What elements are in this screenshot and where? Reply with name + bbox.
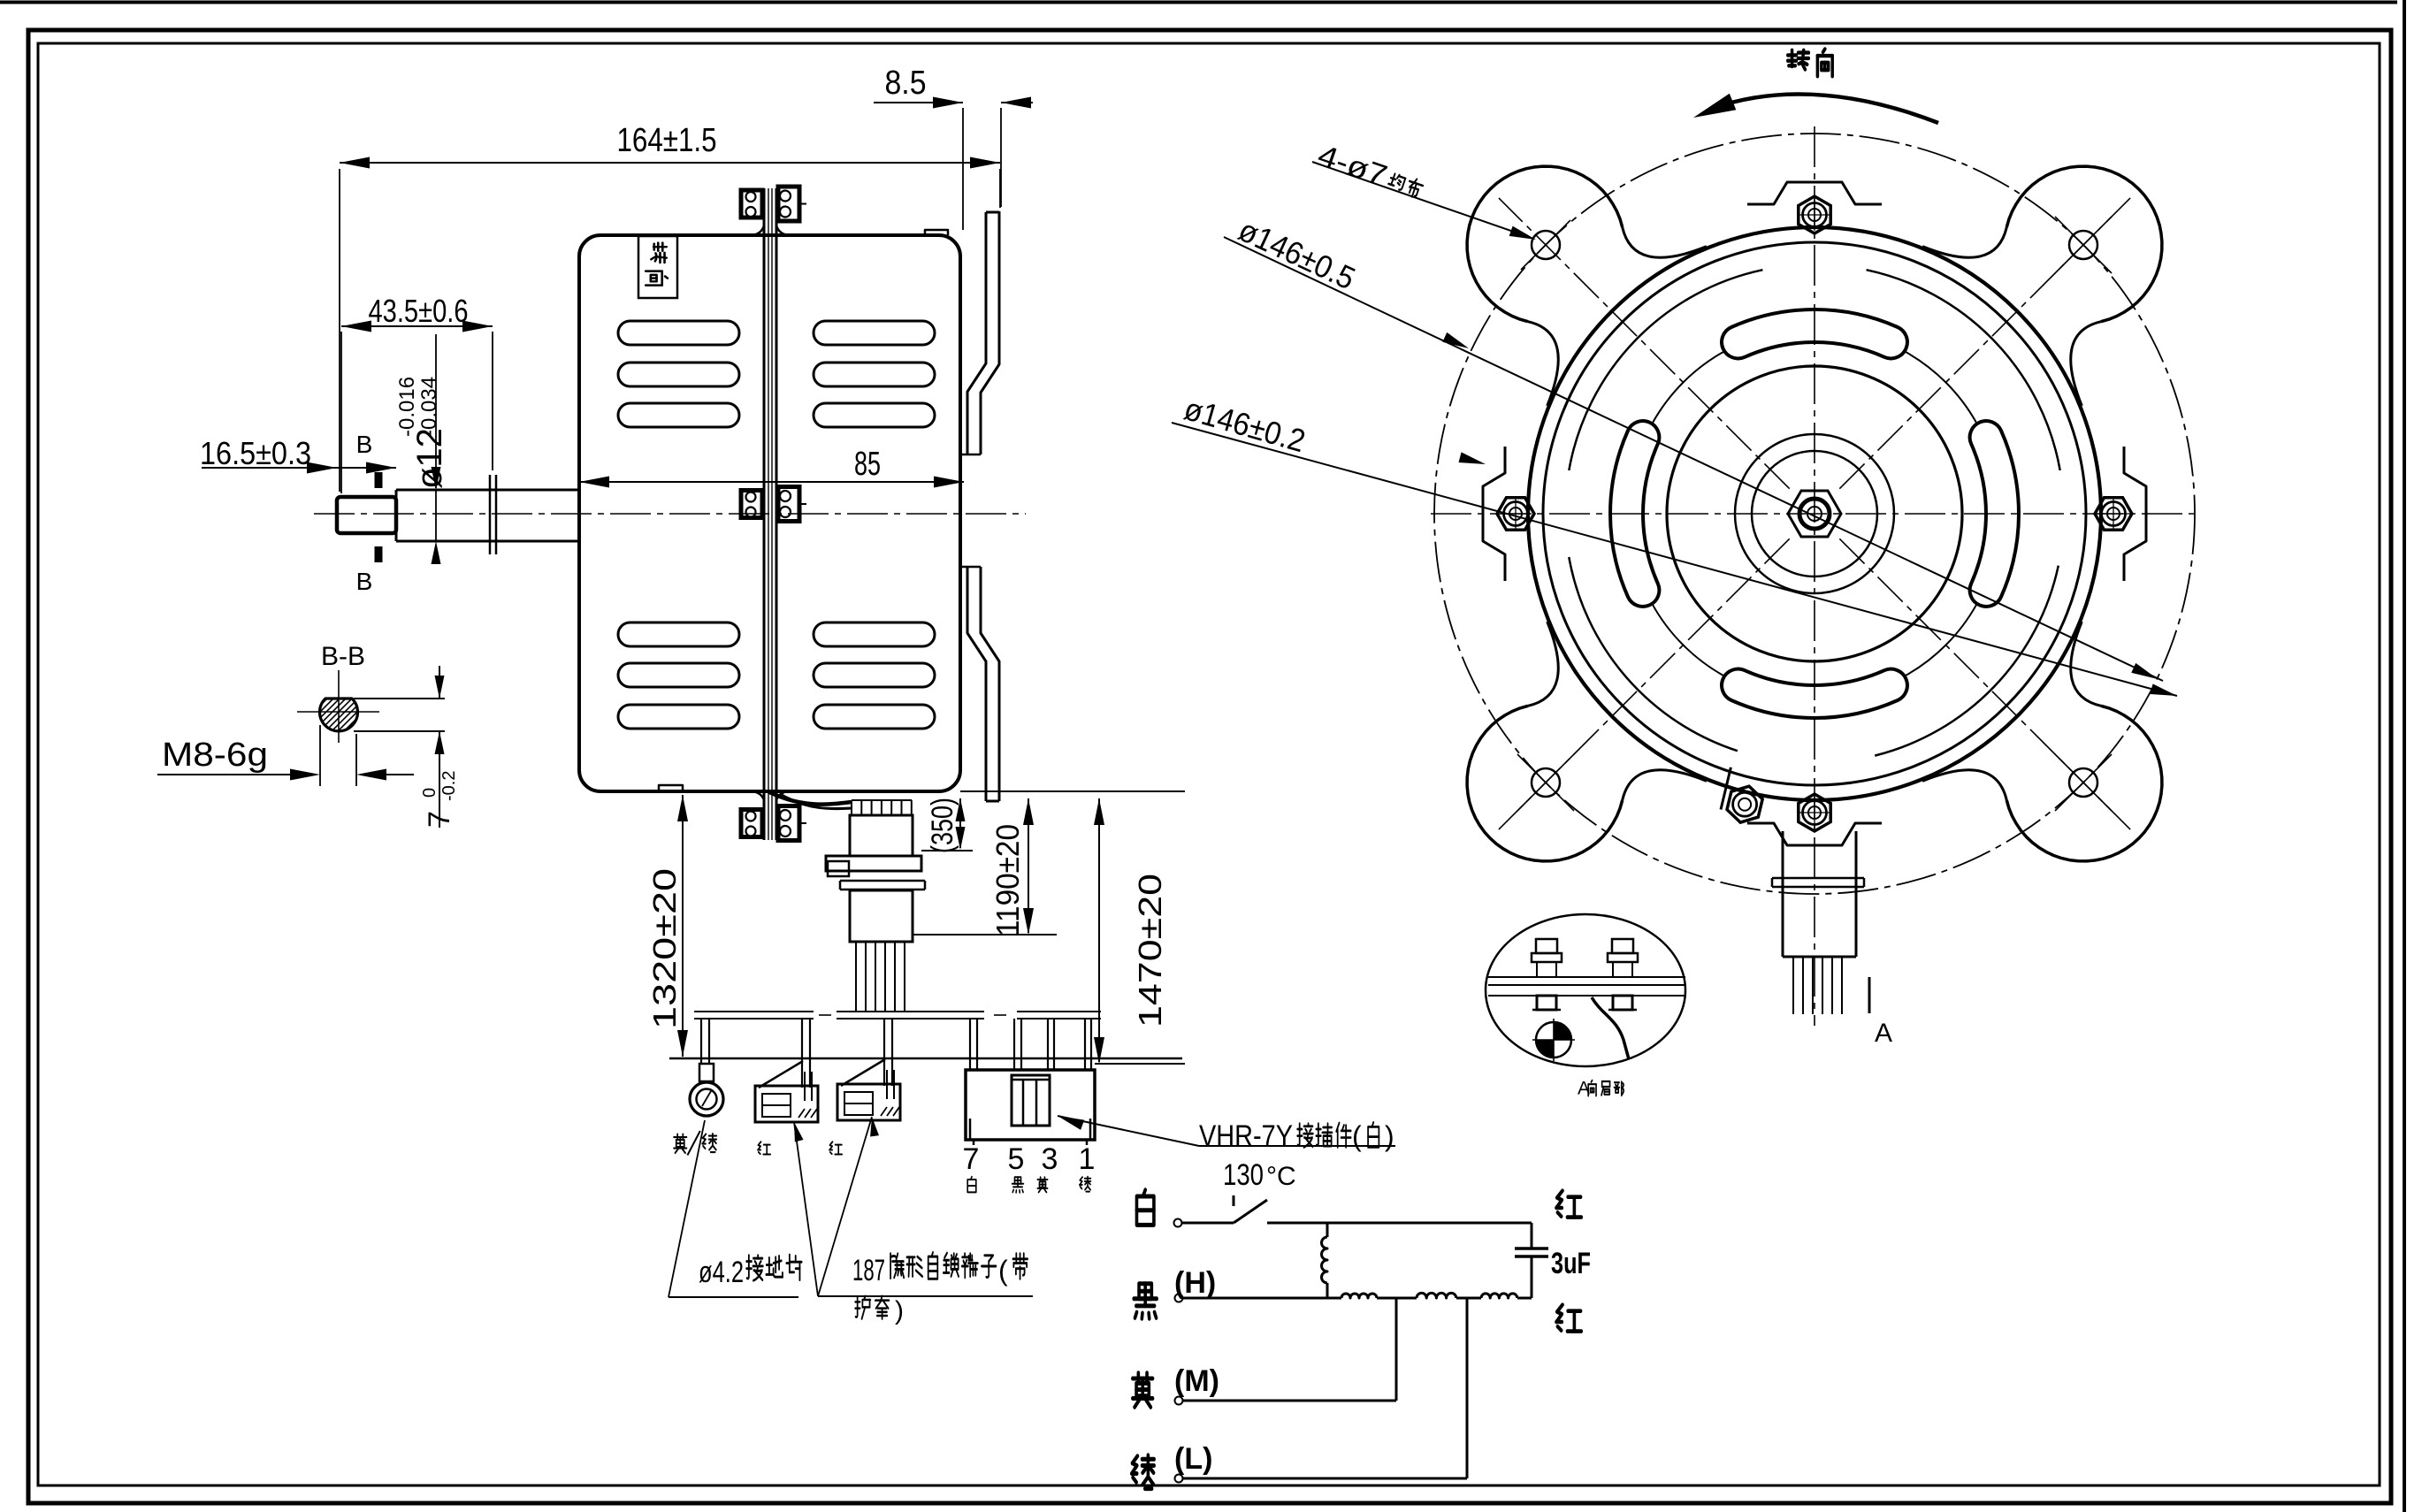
svg-text:-0.016: -0.016 (395, 377, 419, 437)
svg-text:): ) (895, 1296, 904, 1325)
svg-text:1470±20: 1470±20 (1132, 874, 1168, 1027)
svg-text:8.5: 8.5 (885, 65, 927, 102)
svg-text:130: 130 (1223, 1158, 1264, 1192)
svg-text:(M): (M) (1174, 1364, 1219, 1398)
svg-text:7: 7 (963, 1142, 980, 1176)
svg-text:°C: °C (1266, 1162, 1296, 1191)
svg-text:B: B (356, 431, 373, 458)
svg-text:(: ( (1352, 1120, 1362, 1152)
svg-text:16.5±0.3: 16.5±0.3 (200, 435, 311, 471)
svg-text:-0.034: -0.034 (417, 377, 441, 437)
svg-text:85: 85 (854, 446, 881, 483)
svg-text:(: ( (998, 1255, 1008, 1287)
svg-text:5: 5 (1008, 1142, 1025, 1176)
svg-text:ø4.2: ø4.2 (699, 1256, 744, 1289)
svg-text:0: 0 (420, 788, 439, 798)
svg-text:3uF: 3uF (1551, 1247, 1591, 1280)
svg-text:VHR-7Y: VHR-7Y (1199, 1119, 1293, 1153)
svg-text:3: 3 (1042, 1142, 1058, 1176)
svg-text:-0.2: -0.2 (439, 771, 459, 801)
svg-text:187: 187 (852, 1254, 885, 1287)
svg-text:(L): (L) (1174, 1442, 1212, 1476)
svg-text:1320±20: 1320±20 (646, 868, 683, 1029)
svg-text:(350): (350) (926, 798, 959, 853)
svg-text:B-B: B-B (321, 642, 365, 671)
svg-text:M8-6g: M8-6g (162, 737, 268, 774)
svg-text:7: 7 (423, 811, 456, 828)
svg-text:1: 1 (1079, 1142, 1096, 1176)
svg-text:43.5±0.6: 43.5±0.6 (369, 293, 469, 329)
svg-text:A: A (1875, 1019, 1892, 1048)
svg-text:): ) (1385, 1120, 1394, 1152)
svg-text:164±1.5: 164±1.5 (617, 122, 717, 159)
svg-text:B: B (356, 568, 373, 595)
svg-text:1190±20: 1190±20 (989, 824, 1026, 936)
